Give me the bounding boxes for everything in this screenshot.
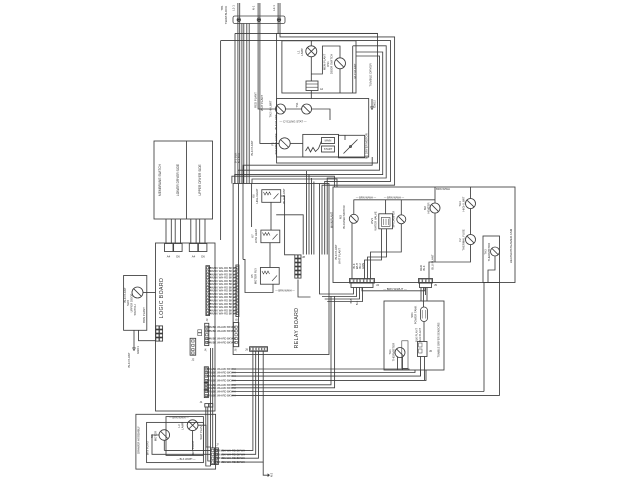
svg-text:BLOWER MOTOR: BLOWER MOTOR (342, 205, 346, 228)
relay board connector J5 upper strip (236, 265, 239, 317)
svg-text:LOW HEAT: LOW HEAT (254, 229, 258, 244)
svg-text:J6: J6 (429, 349, 432, 353)
svg-text:B-2 BLK: B-2 BLK (237, 153, 241, 164)
svg-text:UPPER DRYER SIDE: UPPER DRYER SIDE (198, 164, 202, 195)
svg-text:J8: J8 (302, 255, 305, 259)
wire J4 leg 2 (322, 288, 357, 297)
lamp L1 (306, 46, 317, 57)
wire motor box loop (243, 157, 372, 184)
wire L1-1 pair above and through block (237, 3, 239, 184)
blower motor M3 (349, 214, 358, 223)
svg-text:LAMP: LAMP (180, 422, 184, 430)
door switch DS1 (335, 58, 346, 69)
svg-text:M1 DRYER MOTOR: M1 DRYER MOTOR (364, 133, 368, 159)
relay K6 HIGH HEAT (262, 190, 281, 203)
wire motor leads down 2 (308, 175, 310, 255)
wires group B up right side (232, 296, 332, 385)
wire TH3 legs (488, 256, 495, 283)
svg-text:M4 DAMPER: M4 DAMPER (392, 211, 396, 228)
wire fuse to motor (290, 142, 303, 144)
svg-text:TUMBLE DRYER SENSORS: TUMBLE DRYER SENSORS (437, 322, 441, 357)
svg-text:BLK PLANT: BLK PLANT (127, 352, 131, 367)
centrifugal switch box (339, 135, 365, 158)
wire relay J9 leg 2 (222, 351, 256, 454)
dryer motor M1 box (303, 134, 339, 157)
wire J4-J5 link (362, 288, 425, 291)
wire heater bottom right leg (499, 283, 501, 396)
svg-text:DOOR SWITCH: DOOR SWITCH (330, 54, 334, 74)
wire K7 to K5 (269, 243, 271, 268)
svg-text:— BRN W/WH —: — BRN W/WH — (169, 416, 189, 419)
wire relay J9 leg 1 (222, 351, 253, 450)
svg-text:HIGH HEAT: HIGH HEAT (255, 188, 259, 203)
svg-text:WHT PLANT: WHT PLANT (260, 95, 264, 111)
logic board outline (156, 243, 216, 411)
door switch SW2 symbol (132, 287, 143, 298)
ribbon cable 4 (199, 219, 201, 244)
ribbon cable 3 (190, 219, 192, 244)
svg-text:TUMBLE DRYER: TUMBLE DRYER (369, 62, 373, 86)
wire L3 legs (192, 431, 194, 451)
hi-limit TH4 (466, 199, 476, 209)
thermistor TH1 (395, 348, 405, 358)
svg-text:BRN/BK WH-RD BK'WH: BRN/BK WH-RD BK'WH (216, 456, 245, 460)
motor sub box (277, 99, 369, 158)
wire TF2 bottom (429, 245, 471, 279)
wire J4 leg 4 (327, 288, 362, 302)
membrane switch box (154, 141, 213, 219)
wire K6 drop to J8 (281, 196, 295, 255)
terminal L1-1 screw (237, 18, 240, 21)
wire J4 leg 1 (320, 184, 354, 295)
wire bus jog to K5 bottom (243, 259, 273, 292)
wire motor leads down 3 (311, 178, 313, 255)
svg-text:RLY PLANT: RLY PLANT (353, 63, 357, 78)
heater steamer asm box (333, 187, 515, 283)
wire bundle vertical x235 (234, 33, 236, 183)
motor winding MAIN (322, 138, 335, 144)
wire loop H6 from box edge (238, 56, 380, 184)
wire M3 bottom (351, 223, 353, 279)
wire SW2 lower to logic connector (139, 330, 156, 340)
svg-text:RELAY BOARD: RELAY BOARD (294, 308, 300, 349)
svg-text:A4: A4 (320, 88, 324, 91)
connector J6 (418, 342, 428, 357)
svg-text:BRN/BK WH-RD BK'WH: BRN/BK WH-RD BK'WH (206, 329, 235, 333)
logic board connector J3 upper (206, 266, 210, 316)
wire J5 legs down (420, 288, 422, 302)
neutral N-2 arrow (268, 474, 270, 476)
wire right branch (352, 46, 354, 93)
svg-text:START: START (324, 147, 333, 151)
svg-text:LOGIC BOARD: LOGIC BOARD (159, 278, 165, 318)
wire loop H3 (221, 41, 391, 255)
ground GND2 (371, 99, 373, 103)
svg-text:J2: J2 (191, 358, 194, 362)
wire relay J9 leg 4 to N-2 (222, 351, 264, 462)
svg-text:DRAWER ASSEMBLY: DRAWER ASSEMBLY (137, 426, 141, 454)
svg-text:D6: D6 (176, 255, 180, 259)
wire TH1 legs (397, 357, 399, 370)
wire motor leads down 1 (306, 171, 308, 255)
wire loop H1 into box top (235, 32, 378, 34)
wire door switch down (339, 69, 341, 93)
thermostat TH2 (276, 104, 286, 114)
logic board connector J4 middle (205, 323, 209, 345)
wire N-1 pair to thermostat TH2 (258, 3, 275, 109)
svg-text:J9: J9 (245, 348, 248, 352)
svg-text:BLK PLANT: BLK PLANT (414, 328, 418, 342)
motor winding START (322, 146, 335, 152)
svg-text:WHT PLANT: WHT PLANT (199, 424, 203, 439)
thermistor TH3 (491, 247, 500, 256)
wire relay bus 2 (242, 184, 244, 260)
svg-text:THERMAL FUSE: THERMAL FUSE (274, 133, 278, 155)
wire M3 top (353, 200, 355, 215)
wire lamp to buzzer (310, 57, 312, 81)
svg-text:BRN PLANT: BRN PLANT (142, 307, 146, 323)
drawer inner loop B (166, 417, 203, 456)
wire J4 leg 3 (325, 288, 360, 300)
svg-text:J1: J1 (200, 400, 203, 404)
wire drawer row 1 (164, 449, 211, 451)
svg-text:BRN PLANT: BRN PLANT (146, 440, 150, 455)
door switch SW2 box (124, 276, 147, 331)
wire relay J9 leg 3 (222, 351, 259, 458)
thermal fuse TF1 (279, 138, 290, 149)
centrifugal switch contact (344, 140, 358, 154)
wire buzzer down (310, 91, 312, 99)
svg-text:BLK: BLK (422, 265, 426, 270)
wire L2-1 pair through block (277, 3, 279, 33)
svg-text:— BLK W/WH —: — BLK W/WH — (176, 458, 196, 461)
svg-text:J5: J5 (434, 283, 437, 287)
wire L2-1 to outer loop (280, 3, 395, 255)
connector J5 upper half (419, 279, 433, 284)
wire M5 legs (163, 440, 165, 450)
svg-text:MOTOR: MOTOR (154, 431, 158, 441)
svg-text:MAIN: MAIN (325, 139, 332, 143)
thermostat TS1 (302, 104, 312, 114)
wire TH2 to TS1 (286, 108, 302, 110)
svg-text:BRN/BK WH-RD BK'WH: BRN/BK WH-RD BK'WH (216, 448, 245, 452)
svg-text:BRN/BK WH-RD BK'WH: BRN/BK WH-RD BK'WH (216, 452, 245, 456)
wire M4 down (371, 224, 402, 279)
svg-text:BRN/BK WH-RD BK'WH: BRN/BK WH-RD BK'WH (216, 460, 245, 464)
wire J1 legs down (206, 407, 211, 466)
svg-text:J3: J3 (205, 318, 209, 321)
svg-text:LOWER DRYER SIDE: LOWER DRYER SIDE (176, 164, 180, 196)
moisture sensor SR1 (421, 307, 428, 322)
svg-text:GND2: GND2 (373, 100, 377, 108)
wire TH4 top (470, 187, 472, 199)
wire WV1 down legs (365, 229, 382, 279)
ribbon connector 4 (198, 244, 207, 252)
connector J5 lower half (420, 283, 432, 288)
thermistor TH3 box (483, 236, 500, 283)
motor switch squiggle (306, 147, 319, 152)
svg-text:HEATER: HEATER (427, 202, 431, 213)
svg-text:MOTOR RLY: MOTOR RLY (253, 268, 257, 285)
wire TS1 right (312, 109, 330, 120)
wire M2 bottom (434, 213, 436, 262)
wire long vertical x212.7 (212, 348, 214, 448)
svg-text:TERM BLOCK: TERM BLOCK (224, 6, 228, 24)
svg-text:— BRN W/WH —: — BRN W/WH — (275, 289, 295, 292)
svg-text:— CYCLING STAT —: — CYCLING STAT — (279, 120, 306, 124)
tumble dryer sensors box (384, 301, 444, 370)
ribbon connector 1 (165, 244, 174, 252)
logic board bottom connector J1 (205, 404, 209, 407)
wire SW2 to logic board (143, 292, 156, 294)
svg-text:J5: J5 (235, 318, 239, 321)
logic board left connector (156, 326, 159, 329)
logic board lower connector group A (204, 367, 208, 383)
svg-text:— BRN W/WH —: — BRN W/WH — (384, 195, 405, 199)
svg-text:LAMP: LAMP (300, 48, 304, 56)
svg-text:TS1: TS1 (295, 102, 299, 108)
ribbon connector 3 (189, 244, 198, 252)
wires group A to sensors box (232, 369, 410, 370)
svg-text:BLK PLANT: BLK PLANT (274, 114, 278, 129)
thermistor TH1 bracket (402, 341, 408, 369)
wire K6 out right (276, 215, 303, 255)
svg-text:BRN/BK WH-RD BK'WH: BRN/BK WH-RD BK'WH (206, 325, 235, 329)
wire motor leads down 4 (313, 182, 315, 255)
terminal N-1 screw (257, 18, 260, 21)
heater M2 (430, 203, 440, 213)
wire bundle vertical x249.2 (248, 24, 250, 184)
wire J6 legs out (420, 357, 422, 377)
ground GND1 (133, 344, 135, 348)
svg-text:THERMISTOR: THERMISTOR (487, 243, 491, 261)
wire lamp top (310, 41, 312, 46)
wire K6 to K7 (270, 202, 272, 230)
svg-text:BRN/BK WH-RD BK'WH: BRN/BK WH-RD BK'WH (206, 340, 235, 344)
wire bundle vertical x246.8 (246, 24, 248, 184)
svg-text:D6: D6 (201, 255, 205, 259)
wire relay bus 3 (251, 184, 253, 228)
connector J2 on logic board (190, 338, 196, 355)
wire J8 down leg right (298, 280, 311, 298)
svg-text:J6: J6 (234, 348, 238, 351)
svg-text:WHT PLANT: WHT PLANT (338, 248, 342, 264)
relay board bottom connector J9 (250, 347, 268, 352)
damper motor M4 (397, 215, 406, 224)
svg-text:SWITCH: SWITCH (133, 304, 137, 315)
water valve WV1 (379, 214, 393, 229)
wire L1-1 extra pair below block (241, 24, 243, 184)
wire left drop to logic board (220, 41, 222, 240)
relay board outline (233, 184, 329, 355)
drawer inner loop A (147, 422, 204, 462)
terminal L2-1 screw (277, 18, 280, 21)
svg-text:BRN/BK WH-RD BK'WH: BRN/BK WH-RD BK'WH (208, 312, 237, 316)
svg-text:WATER VALVE: WATER VALVE (373, 211, 377, 230)
wire long vertical x210.5 (210, 348, 212, 466)
svg-text:BLK PLANT: BLK PLANT (250, 140, 254, 155)
svg-text:MEMBRANE SWITCH: MEMBRANE SWITCH (158, 163, 162, 196)
wire SW2 to ground (133, 330, 135, 344)
svg-text:A4: A4 (192, 255, 196, 259)
wire lamp loop to door switch (311, 46, 340, 74)
thermal fuse TF2 (466, 235, 476, 245)
wire loop H5 from box edge (235, 52, 383, 184)
svg-text:L2-1: L2-1 (272, 5, 276, 11)
tumble dryer section box (277, 33, 378, 163)
wire heater feed 2 (252, 179, 337, 187)
svg-text:HIGH LIMIT: HIGH LIMIT (462, 196, 466, 211)
lamp L3 (187, 420, 198, 431)
connector J8 on relay board (295, 255, 298, 258)
svg-text:GRN: GRN (361, 263, 365, 269)
svg-text:GND1: GND1 (136, 346, 140, 354)
wire SR1 to J6 (423, 322, 425, 342)
buzzer BZ1 (306, 81, 318, 91)
svg-text:J4: J4 (376, 283, 379, 287)
connector J4 lower half (351, 283, 373, 288)
wire M4 top (400, 200, 402, 215)
wire loop H4 from door switch branch (327, 46, 386, 255)
svg-text:N-1: N-1 (252, 5, 256, 10)
svg-text:TH2 HI-LIMIT: TH2 HI-LIMIT (269, 100, 273, 117)
logic board lower connector group C (204, 390, 208, 398)
lamp-doorswitch sub box (282, 41, 356, 93)
svg-text:N-2: N-2 (270, 472, 274, 477)
svg-text:BLU PLANT: BLU PLANT (418, 328, 422, 343)
logic board lower connector group B (204, 383, 208, 390)
wire M2 top (434, 187, 436, 203)
svg-text:BLU PLANT: BLU PLANT (431, 254, 435, 270)
relay board connector J6 middle strip (233, 323, 238, 347)
svg-text:BLK PLANT: BLK PLANT (123, 287, 127, 302)
svg-text:J4: J4 (203, 348, 207, 351)
drawer motor M5 (159, 430, 170, 441)
svg-text:THERMISTOR: THERMISTOR (392, 343, 396, 361)
ribbon cable 1 (165, 219, 167, 244)
wire heater bottom left leg (483, 283, 485, 392)
connector J4 upper half (350, 279, 375, 284)
svg-text:— BRN W/WH —: — BRN W/WH — (356, 195, 377, 199)
svg-text:BRN W/WH: BRN W/WH (436, 187, 450, 191)
drawer connector (211, 448, 215, 465)
terminal block TB1 (233, 16, 285, 24)
connector mini pins (198, 330, 202, 333)
relay K5 MOTOR (260, 268, 279, 285)
svg-text:HEATER/STEAMER ASM: HEATER/STEAMER ASM (509, 228, 513, 263)
svg-text:— BRN W/WHT —: — BRN W/WHT — (383, 287, 407, 291)
svg-text:RED PLANT: RED PLANT (254, 92, 258, 108)
svg-text:POWER TANK: POWER TANK (414, 306, 418, 325)
wires group C to heater legs (232, 391, 485, 393)
wire N-1 pair to thermal fuse TF1 (260, 3, 279, 143)
wire heater top bus (354, 199, 436, 201)
membrane switch divider (186, 141, 188, 219)
svg-text:A4: A4 (167, 255, 171, 259)
drawer assembly box (136, 414, 216, 469)
ribbon cable 2 (174, 219, 176, 244)
wire heater feed from bus (232, 176, 335, 187)
svg-text:BRN/BK WH-RD BK'WH: BRN/BK WH-RD BK'WH (206, 337, 235, 341)
wire WV1 top (385, 200, 387, 214)
ribbon connector 2 (174, 244, 183, 252)
svg-text:THERMAL FUSE: THERMAL FUSE (462, 229, 466, 251)
wire TH4 to TF2 (470, 209, 472, 235)
svg-text:J7: J7 (216, 443, 219, 446)
svg-text:L1-1: L1-1 (232, 5, 236, 11)
relay K7 LOW HEAT (261, 230, 280, 243)
wire relay bus 1 (238, 184, 240, 347)
